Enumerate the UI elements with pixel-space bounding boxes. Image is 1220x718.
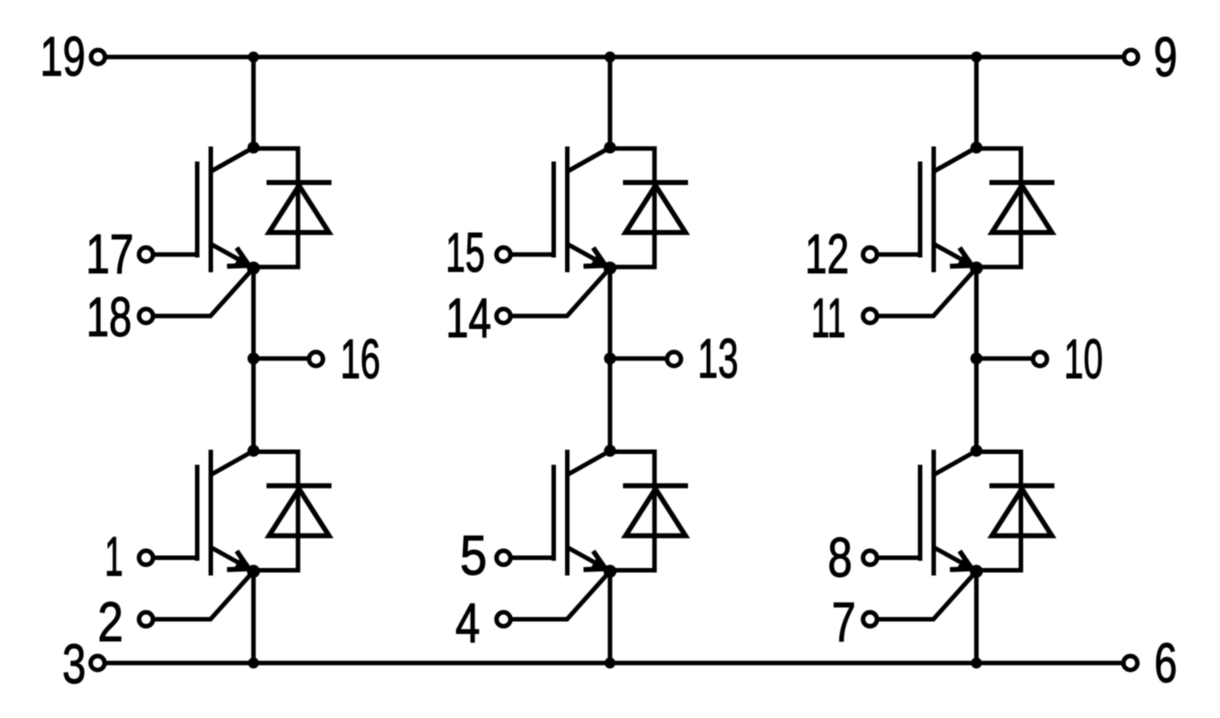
wire: phase 3 output stub to pin 10 xyxy=(976,356,1031,361)
diode D3 connection loop xyxy=(610,149,655,268)
wire: gate lead of pin 1 xyxy=(155,556,197,561)
diode D4 connection loop xyxy=(610,452,655,571)
terminal pin 5 (gate) xyxy=(497,551,511,565)
transistor Q2 (lower IGBT) body bar xyxy=(209,450,214,576)
terminal pin 7 (auxiliary emitter) xyxy=(863,612,877,626)
diode D5 triangle xyxy=(992,186,1052,233)
node: emitter of Q3 xyxy=(604,262,617,275)
diode D1 cathode bar xyxy=(267,180,332,185)
transistor Q3 emitter lead with arrow xyxy=(567,244,607,266)
wire: phase 3 top bus drop xyxy=(974,57,979,148)
svg-text:6: 6 xyxy=(1154,631,1177,694)
terminal pin 10 (phase 3 output) xyxy=(1033,352,1047,366)
diode D6 connection loop xyxy=(976,452,1021,571)
node: phase 1 midpoint junction xyxy=(248,353,260,365)
node: collector of Q1 xyxy=(248,142,260,154)
node: phase 2 midpoint junction xyxy=(604,353,616,365)
node: phase 2 junction on negative bus xyxy=(605,658,616,669)
transistor Q5 emitter lead with arrow xyxy=(934,244,974,266)
terminal pin 17 (gate) xyxy=(139,248,153,262)
terminal pin 6 xyxy=(1123,656,1137,670)
wire: phase 1 top bus drop xyxy=(251,57,256,148)
diode D2 cathode bar xyxy=(267,483,332,488)
node: phase 1 junction on negative bus xyxy=(248,658,259,669)
node: emitter of Q5 xyxy=(970,262,983,275)
transistor Q5 collector lead xyxy=(934,148,977,172)
transistor Q5 gate bar xyxy=(918,162,923,258)
svg-text:18: 18 xyxy=(86,285,132,348)
transistor Q3 collector lead xyxy=(567,148,610,172)
svg-text:5: 5 xyxy=(460,524,487,587)
wire: phase 2 output stub to pin 13 xyxy=(610,356,665,361)
wire: auxiliary emitter lead of pin 4 xyxy=(513,571,611,619)
diode D5 cathode bar xyxy=(989,180,1054,185)
diode D3 cathode bar xyxy=(623,180,688,185)
diode D6 triangle xyxy=(992,489,1052,536)
wire: phase 1 output stub to pin 16 xyxy=(254,356,308,361)
terminal pin 15 (gate) xyxy=(497,248,511,262)
transistor Q3 gate bar xyxy=(551,162,556,258)
transistor Q2 emitter lead with arrow xyxy=(211,547,251,569)
terminal pin 14 (auxiliary emitter) xyxy=(497,309,511,323)
wire: auxiliary emitter lead of pin 14 xyxy=(513,268,611,316)
transistor Q4 gate bar xyxy=(551,465,556,561)
wire: negative DC bus (pin 3 to pin 6) xyxy=(105,661,1124,666)
wire: phase 2 midpoint connection xyxy=(608,268,613,451)
wire: auxiliary emitter lead of pin 7 xyxy=(879,571,976,619)
terminal pin 16 (phase 1 output) xyxy=(309,352,323,366)
transistor Q4 (lower IGBT) body bar xyxy=(565,450,570,576)
diode D2 triangle xyxy=(269,489,329,536)
node: emitter of Q1 xyxy=(247,262,260,275)
diode D4 triangle xyxy=(626,489,686,536)
transistor Q1 (upper IGBT) body bar xyxy=(209,147,214,273)
svg-text:19: 19 xyxy=(40,24,86,87)
wire: gate lead of pin 12 xyxy=(879,252,920,257)
transistor Q2 collector lead xyxy=(211,451,254,475)
transistor Q1 emitter lead with arrow xyxy=(211,244,251,266)
transistor Q1 collector lead xyxy=(211,148,254,172)
node: phase 2 junction on positive bus xyxy=(605,52,616,63)
terminal pin 4 (auxiliary emitter) xyxy=(497,612,511,626)
transistor Q3 (upper IGBT) body bar xyxy=(565,147,570,273)
svg-text:7: 7 xyxy=(832,590,856,653)
terminal pin 2 (auxiliary emitter) xyxy=(139,612,153,626)
svg-text:1: 1 xyxy=(105,524,124,587)
transistor Q4 collector lead xyxy=(567,451,610,475)
svg-text:10: 10 xyxy=(1064,327,1103,390)
diode D5 connection loop xyxy=(976,149,1021,268)
diode D1 connection loop xyxy=(254,149,299,268)
node: phase 3 junction on positive bus xyxy=(971,52,982,63)
wire: positive DC bus (pin 19 to pin 9) xyxy=(105,55,1124,60)
node: collector of Q5 xyxy=(970,142,982,154)
wire: phase 2 bottom bus drop xyxy=(608,571,613,663)
terminal pin 19 xyxy=(91,50,105,64)
wire: phase 1 bottom bus drop xyxy=(251,571,256,663)
diode D3 triangle xyxy=(626,186,686,233)
svg-text:12: 12 xyxy=(805,222,849,285)
terminal pin 3 xyxy=(91,656,105,670)
svg-text:15: 15 xyxy=(446,221,485,284)
wire: auxiliary emitter lead of pin 11 xyxy=(879,268,976,316)
diode D2 connection loop xyxy=(254,452,299,571)
svg-text:8: 8 xyxy=(828,525,853,588)
node: collector of Q2 xyxy=(248,445,260,457)
terminal pin 9 xyxy=(1124,50,1138,64)
wire: auxiliary emitter lead of pin 18 xyxy=(155,268,254,316)
node: phase 3 midpoint junction xyxy=(970,353,982,365)
transistor Q5 (upper IGBT) body bar xyxy=(931,147,936,273)
terminal pin 8 (gate) xyxy=(863,551,877,565)
wire: gate lead of pin 15 xyxy=(513,252,554,257)
node: collector of Q4 xyxy=(604,445,616,457)
wire: phase 3 midpoint connection xyxy=(974,268,979,451)
node: collector of Q6 xyxy=(970,445,982,457)
wire: gate lead of pin 5 xyxy=(513,556,554,561)
terminal pin 12 (gate) xyxy=(863,248,877,262)
wire: gate lead of pin 8 xyxy=(879,556,920,561)
diode D4 cathode bar xyxy=(623,483,688,488)
svg-text:16: 16 xyxy=(340,327,380,390)
wire: phase 1 midpoint connection xyxy=(251,268,256,451)
diode D6 cathode bar xyxy=(989,483,1054,488)
node: emitter of Q6 xyxy=(970,565,983,578)
transistor Q6 gate bar xyxy=(918,465,923,561)
svg-text:4: 4 xyxy=(455,591,480,654)
node: phase 1 junction on positive bus xyxy=(248,52,259,63)
terminal pin 18 (auxiliary emitter) xyxy=(139,309,153,323)
terminal pin 1 (gate) xyxy=(139,551,153,565)
node: phase 3 junction on negative bus xyxy=(971,658,982,669)
svg-text:11: 11 xyxy=(811,286,846,349)
svg-text:2: 2 xyxy=(98,590,124,653)
node: emitter of Q2 xyxy=(247,565,260,578)
transistor Q6 (lower IGBT) body bar xyxy=(931,450,936,576)
node: emitter of Q4 xyxy=(604,565,617,578)
wire: phase 3 bottom bus drop xyxy=(974,571,979,663)
transistor Q1 gate bar xyxy=(195,162,200,258)
node: collector of Q3 xyxy=(604,142,616,154)
svg-text:13: 13 xyxy=(698,327,739,390)
svg-text:14: 14 xyxy=(446,286,492,349)
diode D1 triangle xyxy=(269,186,329,233)
terminal pin 13 (phase 2 output) xyxy=(667,352,681,366)
transistor Q4 emitter lead with arrow xyxy=(567,547,607,569)
terminal pin 11 (auxiliary emitter) xyxy=(863,309,877,323)
transistor Q6 emitter lead with arrow xyxy=(934,547,974,569)
wire: gate lead of pin 17 xyxy=(155,252,197,257)
transistor Q6 collector lead xyxy=(934,451,977,475)
svg-text:3: 3 xyxy=(62,632,86,695)
wire: auxiliary emitter lead of pin 2 xyxy=(155,571,254,619)
transistor Q2 gate bar xyxy=(195,465,200,561)
svg-text:17: 17 xyxy=(86,222,134,285)
wire: phase 2 top bus drop xyxy=(608,57,613,148)
svg-text:9: 9 xyxy=(1154,25,1178,88)
